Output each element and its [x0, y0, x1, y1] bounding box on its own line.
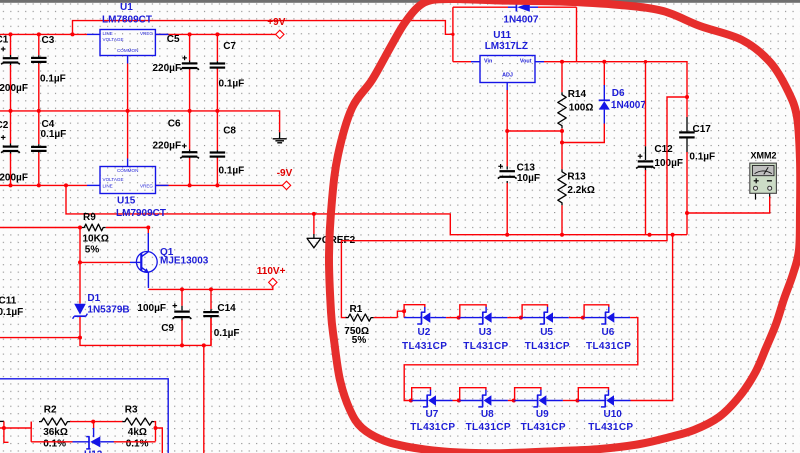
svg-text:U3: U3 — [479, 327, 492, 338]
node R14 top — [560, 60, 564, 64]
diode D6 wires — [603, 62, 605, 86]
svg-text:100Ω: 100Ω — [569, 102, 594, 113]
node GREF2 junction — [312, 212, 316, 216]
wire D1 anode — [79, 262, 81, 303]
wire U13 ref from R2R3 node — [93, 422, 95, 429]
node R3 right junction — [154, 426, 158, 430]
svg-text:MJE13003: MJE13003 — [160, 256, 209, 267]
resistor R14 wires — [561, 62, 563, 92]
capacitor C13 — [499, 170, 515, 172]
svg-text:10KΩ: 10KΩ — [83, 234, 109, 245]
wire Q1 base — [80, 261, 130, 263]
node lower branch junction — [202, 343, 206, 347]
wire R13 bottom — [561, 205, 563, 234]
wire U1 output to +9V terminal — [155, 33, 276, 35]
capacitor C1 — [3, 57, 19, 59]
XMM2 pin stub right — [769, 191, 771, 197]
capacitor C13 leads — [506, 131, 508, 166]
node C5 top — [188, 32, 192, 36]
transistor Q1 collector stub — [147, 233, 149, 252]
svg-text:1N4007: 1N4007 — [503, 15, 538, 26]
wire Vout vertical right — [576, 7, 578, 62]
svg-text:LINE: LINE — [103, 184, 113, 189]
svg-text:U5: U5 — [540, 327, 553, 338]
capacitor C5 leads — [189, 34, 191, 60]
wire ref stub U9 — [540, 390, 542, 395]
svg-text:TL431CP: TL431CP — [410, 422, 455, 433]
wire lower diode row left — [30, 422, 32, 442]
U1 pin stubs — [87, 33, 100, 35]
wire row2 blue segment U10 — [578, 400, 606, 402]
svg-text:5%: 5% — [85, 245, 100, 256]
wire row1 red link to U3 — [446, 317, 459, 319]
svg-text:0.1µF: 0.1µF — [219, 165, 245, 176]
diode D1 1N5379B — [74, 304, 86, 315]
capacitor C7 leads — [216, 34, 218, 61]
svg-text:R9: R9 — [83, 212, 96, 223]
wire row1 blue out U6 — [614, 317, 630, 319]
shunt regulator U8 symbol — [482, 395, 484, 407]
svg-text:TL431CP: TL431CP — [402, 341, 447, 352]
capacitor C4 — [31, 146, 47, 148]
svg-text:0.1µF: 0.1µF — [0, 307, 23, 318]
svg-text:U15: U15 — [117, 196, 136, 207]
wire row2 red link to U9 — [508, 400, 514, 402]
svg-text:C1: C1 — [0, 34, 9, 45]
node D6 top — [602, 60, 606, 64]
svg-text:0.1%: 0.1% — [126, 439, 149, 450]
capacitor C6 leads — [189, 111, 191, 150]
wire row1 red link to U5 — [507, 317, 521, 319]
wire ADJ row y=131 — [507, 130, 562, 132]
XMM2 pin stub left — [755, 191, 757, 200]
node R9 left junction — [78, 226, 82, 230]
node U7 anode junction — [409, 399, 413, 403]
svg-text:0.1µF: 0.1µF — [40, 74, 66, 85]
svg-text:C2: C2 — [0, 120, 9, 131]
svg-text:LM7909CT: LM7909CT — [116, 208, 166, 219]
wire ref stub U8 — [485, 390, 487, 395]
wire ref loop U10 — [578, 388, 608, 401]
svg-text:U2: U2 — [418, 327, 431, 338]
svg-text:TL431CP: TL431CP — [521, 422, 566, 433]
wire ref loop U9 — [515, 388, 541, 401]
svg-text:2.2kΩ: 2.2kΩ — [567, 185, 594, 196]
op-amp U1 LM7809CT box — [100, 30, 155, 56]
shunt regulator U3 symbol — [482, 312, 484, 324]
capacitor C8 leads — [216, 111, 218, 150]
shunt regulator U9 symbol — [537, 395, 539, 407]
svg-text:D1: D1 — [87, 293, 100, 304]
capacitor C12 leads — [645, 62, 647, 147]
node U10 anode junction — [576, 399, 580, 403]
wire ref stub U5 — [547, 307, 549, 312]
wire D1 ground rail y=337.6 — [0, 337, 80, 339]
svg-text:C9: C9 — [161, 323, 174, 334]
wire ground rail jog — [80, 319, 211, 346]
wire U15 output to -9V terminal — [156, 184, 283, 186]
svg-text:1N4007: 1N4007 — [611, 100, 646, 111]
wire R9 to Q1 collector — [106, 227, 149, 229]
node junction x=72.5 rail1 — [71, 32, 75, 36]
wire ref stub U7 — [430, 390, 432, 395]
svg-text:R2: R2 — [44, 405, 57, 416]
node C3 top — [37, 32, 41, 36]
svg-text:C7: C7 — [223, 41, 236, 52]
wire row1 blue segment U2 — [404, 317, 421, 319]
svg-text:220µF: 220µF — [153, 63, 182, 74]
svg-text:LM7809CT: LM7809CT — [102, 14, 152, 25]
wire ref loop U8 — [460, 388, 486, 401]
wire ADJ net vertical — [506, 90, 508, 131]
wire branch down to lower stage — [203, 345, 205, 453]
wire row1 blue out U2 — [430, 317, 446, 319]
svg-text:0.1µF: 0.1µF — [219, 79, 245, 90]
svg-text:D6: D6 — [612, 88, 625, 99]
node output rail junction — [671, 233, 675, 237]
svg-text:0.1%: 0.1% — [43, 439, 66, 450]
power 110V+ terminal diamond — [269, 278, 277, 286]
svg-text:R1: R1 — [350, 304, 363, 315]
capacitor C9 leads — [181, 289, 183, 305]
node C12 top — [644, 60, 647, 63]
node C8 bottom — [215, 183, 219, 187]
capacitor C4 leads — [38, 111, 40, 144]
svg-text:100µF: 100µF — [137, 303, 166, 314]
svg-text:R14: R14 — [568, 89, 587, 100]
wire row1 blue out U3 — [492, 317, 508, 319]
svg-text:VOLTAGE: VOLTAGE — [103, 177, 124, 182]
node U3 anode junction — [457, 316, 461, 320]
capacitor C7 — [210, 62, 226, 64]
svg-text:36kΩ: 36kΩ — [43, 427, 68, 438]
node XMM2 branch — [685, 211, 689, 215]
svg-text:TL431CP: TL431CP — [588, 422, 633, 433]
resistor R2 — [39, 418, 70, 425]
svg-text:220µF: 220µF — [153, 141, 182, 152]
op-amp U15 LM7909CT box — [100, 167, 156, 194]
svg-text:U10: U10 — [604, 409, 623, 420]
svg-text:U7: U7 — [426, 409, 439, 420]
wire ref stub U6 — [608, 307, 610, 312]
svg-text:1200µF: 1200µF — [0, 83, 28, 94]
node junction x=453 vin — [451, 33, 454, 36]
svg-text:C6: C6 — [168, 119, 181, 130]
svg-text:ADJ: ADJ — [502, 73, 513, 79]
wire lower diode row right — [113, 441, 155, 443]
wire ref loop U6 — [584, 305, 609, 318]
svg-text:TL431CP: TL431CP — [466, 422, 511, 433]
wire row2 blue segment U9 — [514, 400, 538, 402]
svg-text:U13: U13 — [84, 450, 103, 453]
capacitor C1 leads — [10, 34, 12, 55]
node C14 top — [209, 287, 213, 291]
capacitor C3 — [31, 57, 47, 59]
wire R2 left riser — [30, 422, 32, 428]
wire branch right — [156, 428, 163, 453]
node R14 bottom junction — [560, 129, 564, 133]
shunt regulator U5 symbol — [543, 312, 545, 324]
svg-text:1N5379B: 1N5379B — [87, 304, 129, 315]
wire row2 blue out U9 — [546, 400, 563, 402]
wire row1 blue segment U3 — [459, 317, 483, 319]
svg-text:C11: C11 — [0, 296, 17, 307]
node C13 bottom — [505, 233, 509, 237]
wire ref loop U5 — [522, 305, 547, 318]
power +9V terminal diamond — [276, 30, 284, 38]
shunt regulator U6 symbol — [605, 312, 607, 324]
svg-text:U6: U6 — [602, 327, 615, 338]
node C6 bottom — [188, 183, 192, 187]
node C9 bottom — [180, 343, 184, 347]
wire blue feedback net — [0, 379, 168, 453]
wire R9 row from left edge — [0, 227, 82, 229]
wire row2 blue out U7 — [436, 400, 453, 402]
svg-text:U11: U11 — [493, 30, 511, 41]
capacitor C2 leads — [10, 111, 12, 144]
wire U2 anode jog — [397, 311, 404, 317]
wire row2 red link to U8 — [453, 400, 459, 402]
svg-text:110V+: 110V+ — [257, 266, 286, 277]
node C17 feed junction — [685, 95, 689, 99]
resistor R3 — [122, 418, 154, 425]
svg-text:0.1µF: 0.1µF — [689, 151, 715, 162]
svg-text:COMMON: COMMON — [117, 48, 138, 53]
wire D6 anode down — [562, 124, 604, 143]
node C1 top — [9, 32, 13, 36]
node U9 anode junction — [512, 399, 516, 403]
title bar — [0, 0, 800, 3]
svg-text:Vout: Vout — [520, 59, 532, 65]
shunt regulator U7 symbol — [426, 395, 428, 407]
wire -9V rail y=185.4 — [0, 184, 87, 186]
wire U2 ref loop — [404, 305, 425, 312]
svg-text:R13: R13 — [567, 172, 586, 183]
svg-text:VREG: VREG — [140, 31, 153, 36]
wire Q1 collector drop — [147, 228, 149, 235]
svg-text:C8: C8 — [223, 126, 236, 137]
svg-text:TL431CP: TL431CP — [586, 341, 631, 352]
node D6 R13 junction — [560, 141, 564, 145]
svg-text:-9V: -9V — [277, 168, 293, 179]
wire base node vertical — [79, 228, 81, 263]
wire top protection net left — [453, 6, 508, 8]
wire R2 left jog — [4, 421, 9, 442]
capacitor C9 — [174, 311, 190, 313]
resistor R13 — [558, 169, 566, 205]
capacitor C12 — [638, 160, 654, 162]
node Q1 collector junction — [146, 226, 150, 230]
U15 pin stubs — [87, 184, 100, 186]
U11 ADJ stub — [506, 83, 508, 91]
svg-text:C3: C3 — [42, 35, 55, 46]
capacitor C17 leads — [686, 97, 688, 117]
capacitor C17 — [679, 131, 695, 133]
annotation hand-drawn red circle — [329, 0, 800, 453]
node U5 anode junction — [519, 316, 523, 320]
transistor Q1 MJE13003 — [136, 252, 157, 273]
svg-text:5%: 5% — [352, 335, 367, 346]
wire to XMM2 — [687, 196, 770, 213]
shunt regulator U2 symbol — [421, 312, 423, 324]
resistor R1 — [346, 314, 374, 321]
power -9V terminal diamond — [282, 181, 290, 189]
wire R3 right corner — [154, 422, 155, 442]
svg-text:TL431CP: TL431CP — [463, 341, 508, 352]
svg-text:VOLTAGE: VOLTAGE — [103, 37, 124, 42]
capacitor C14 — [203, 311, 219, 313]
wire ref stub U10 — [608, 390, 610, 395]
multimeter XMM2 icon — [750, 163, 777, 193]
ground GREF2 symbol — [313, 234, 315, 238]
svg-text:VREG: VREG — [140, 184, 153, 189]
wire jog row y=428 — [0, 427, 31, 429]
wire R2-R3 link — [70, 421, 123, 423]
svg-text:0.1µF: 0.1µF — [214, 328, 240, 339]
op-amp U11 LM317LZ box — [480, 56, 535, 83]
U1 common pin to U15 — [127, 56, 129, 64]
transistor Q1 emitter stub — [147, 272, 149, 288]
svg-text:LINE: LINE — [103, 31, 113, 36]
ground GND mid rail — [279, 132, 281, 138]
diode D6 1N4007 — [599, 99, 610, 101]
svg-text:U9: U9 — [536, 409, 549, 420]
capacitor C5 — [182, 62, 198, 64]
capacitor C14 leads — [210, 289, 212, 309]
wire row2 blue segment U7 — [411, 400, 427, 402]
wire long rail from -9V net y=213.9 — [66, 185, 687, 234]
node ADJ C13 junction — [505, 129, 509, 133]
node jog junction — [2, 426, 6, 430]
wire row1 blue segment U5 — [521, 317, 544, 319]
node C7 top — [215, 32, 219, 36]
svg-text:TL431CP: TL431CP — [525, 341, 570, 352]
wire ref loop U3 — [460, 305, 486, 318]
shunt regulator U13 symbol — [73, 441, 90, 443]
svg-text:R3: R3 — [125, 405, 138, 416]
node U6 anode junction — [581, 316, 585, 320]
node C4 bottom — [37, 183, 41, 187]
node C12 bottom — [648, 233, 652, 237]
node junction rail3 x=66 — [64, 183, 68, 187]
wire +9V input rail y=34.4 — [0, 33, 87, 35]
svg-text:10µF: 10µF — [517, 173, 540, 184]
node C3 bottom — [37, 109, 41, 113]
svg-text:U8: U8 — [481, 409, 494, 420]
wire mid rail y=110.9 — [0, 111, 280, 133]
svg-text:C5: C5 — [167, 34, 180, 45]
capacitor C6 — [182, 151, 198, 153]
wire top protection net right — [538, 6, 577, 8]
node U1/U15 common at mid rail — [126, 109, 130, 113]
wire row1 to row2 interconnect — [404, 318, 638, 401]
wire row2 red link to U10 — [563, 400, 578, 402]
node C7 bottom — [215, 109, 219, 113]
wire emitter rail y=289.4 — [148, 286, 272, 289]
capacitor C3 leads — [38, 34, 40, 55]
wire Vout rail y=61.7 — [544, 62, 687, 97]
wire row2 blue out U8 — [491, 400, 508, 402]
wire row2 blue out U10 — [614, 400, 631, 402]
node R13 bottom — [560, 233, 564, 237]
U11 pin stubs — [471, 61, 480, 63]
node C2 bottom — [9, 183, 13, 187]
wire Vin to U11 — [453, 61, 471, 63]
svg-text:+9V: +9V — [267, 17, 285, 28]
svg-text:Vin: Vin — [484, 59, 492, 65]
wire ref stub U3 — [485, 307, 487, 312]
capacitor C8 — [210, 151, 226, 153]
node U8 anode junction — [457, 399, 461, 403]
wire row1 red link to U6 — [569, 317, 583, 319]
svg-text:100µF: 100µF — [654, 158, 683, 169]
wire R2 left edge stub — [0, 420, 4, 422]
svg-text:C12: C12 — [654, 144, 673, 155]
svg-text:LM317LZ: LM317LZ — [485, 41, 528, 52]
shunt regulator U10 symbol — [604, 395, 606, 407]
wire R13 top — [561, 131, 563, 169]
wire row1 blue segment U6 — [583, 317, 606, 319]
diode D5 1N4007 top — [508, 6, 516, 8]
node U2 ref junction — [402, 309, 406, 313]
node R2R3 junction — [91, 420, 95, 424]
svg-text:1200µF: 1200µF — [0, 173, 28, 184]
node C9 top — [180, 287, 184, 291]
wire row2 blue segment U8 — [459, 400, 483, 402]
wire feed to R1 jog — [341, 97, 687, 318]
node D1 cathode junction — [78, 336, 82, 340]
wire ref loop U7 — [412, 388, 431, 401]
svg-text:C17: C17 — [693, 124, 712, 135]
U2 ref stub — [424, 307, 426, 312]
resistor R9 — [82, 224, 106, 231]
svg-text:XMM2: XMM2 — [751, 150, 777, 160]
node C1 bottom — [9, 109, 13, 113]
svg-text:U1: U1 — [120, 2, 133, 13]
wire +9V branch over U1 — [73, 21, 453, 35]
node base junction — [78, 260, 82, 264]
capacitor C2 — [3, 146, 19, 148]
node C5 bottom — [188, 109, 192, 113]
svg-text:COMMON: COMMON — [117, 168, 138, 173]
wire Vin vertical — [452, 7, 454, 62]
svg-text:0.1µF: 0.1µF — [41, 129, 67, 140]
wire row2 to output rail — [631, 235, 673, 401]
wire row1 blue out U5 — [553, 317, 569, 319]
wire R1 right lead — [374, 317, 398, 319]
wire D1 cathode — [79, 317, 81, 338]
svg-text:C14: C14 — [217, 303, 236, 314]
ground GREF2 stem — [313, 214, 315, 234]
svg-text:4kΩ: 4kΩ — [128, 427, 147, 438]
